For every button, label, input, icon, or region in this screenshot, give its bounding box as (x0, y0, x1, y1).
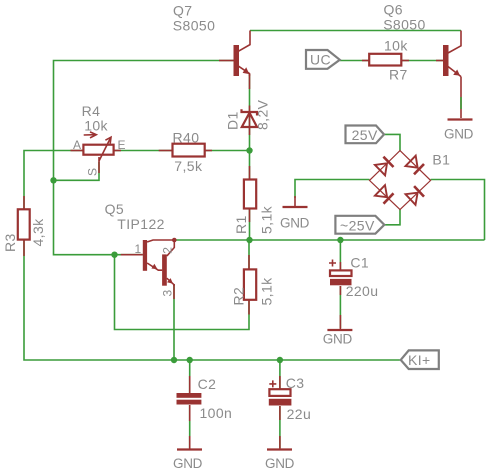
svg-text:GND: GND (323, 332, 353, 347)
diode top-left of bridge B1 (375, 163, 387, 175)
wire Q7 emitter pin stub (249, 74, 251, 89)
svg-text:7,5k: 7,5k (174, 158, 203, 174)
wire R2 bottom pin stub (248, 300, 250, 315)
wire C3 GND stem (279, 436, 281, 449)
wire R4 S wiper to left vertical (54, 162, 100, 180)
svg-text:A: A (73, 138, 81, 152)
svg-text:R7: R7 (389, 67, 408, 83)
wire C2 bottom pin stub (189, 405, 191, 421)
net flag 25V (346, 126, 385, 144)
wire Q6 emitter to GND (460, 77, 462, 119)
svg-text:R1: R1 (233, 215, 249, 234)
svg-text:Q6: Q6 (384, 2, 403, 18)
wire R4 A terminal to R3 top (24, 151, 84, 211)
junction wiper node (50, 177, 56, 183)
potentiometer R4 (83, 132, 113, 161)
resistor R40 (173, 144, 205, 157)
svg-text:GND: GND (444, 127, 474, 142)
net flag ~25V (335, 216, 384, 234)
wire C3 stem (279, 360, 281, 389)
svg-text:GND: GND (173, 456, 203, 470)
wire C2 stem (189, 360, 191, 393)
wire R3 bottom to KI+ rail (24, 240, 401, 360)
svg-text:2: 2 (160, 247, 174, 254)
wire R7 left pin stub (362, 60, 369, 62)
junction Q5 base node (111, 252, 117, 258)
ground GND below Q6 (444, 120, 474, 142)
svg-text:UC: UC (310, 52, 331, 68)
diode bottom-left of bridge B1 (375, 185, 387, 197)
wire D1 pin stubs (249, 106, 251, 136)
wire bridge left corner to GND (295, 180, 370, 199)
wire R7 to Q6 base (401, 60, 443, 62)
junction C2 on KI+ rail (187, 357, 193, 363)
svg-text:C3: C3 (286, 375, 305, 391)
ground GND below C3 (265, 450, 295, 470)
wire Q7 base pin stub (219, 60, 234, 62)
wire C1 top pin stub (339, 262, 341, 270)
svg-text:D1: D1 (225, 111, 241, 130)
wire 25V flag to bridge top (384, 134, 400, 150)
wire C1 stem (339, 240, 341, 270)
ground GND below C2 (173, 450, 203, 470)
wire Q5 emitter pin stub (173, 284, 175, 299)
svg-text:22u: 22u (287, 406, 312, 422)
wire C2 GND stem (189, 436, 191, 449)
wire Q7 emitter / D1 / R1 vertical (249, 74, 251, 240)
wire node rail y240 Q5 collector to bridge right return (174, 239, 484, 241)
wire R40 right pin stub (205, 150, 212, 152)
wire bridge GND stem (294, 196, 296, 206)
wire R3 bottom pin stub (23, 240, 25, 256)
zener diode D1 (242, 109, 258, 127)
junction D1/R40/R1 node (246, 147, 252, 153)
wire C3 top pin stub (279, 376, 281, 389)
svg-text:C2: C2 (198, 376, 217, 392)
resistor R7 (369, 54, 401, 66)
diode bottom-right of bridge B1 (406, 193, 418, 205)
svg-text:25V: 25V (352, 127, 378, 143)
svg-text:220u: 220u (346, 283, 379, 299)
wire C1 bottom pin stub (339, 286, 341, 295)
svg-text:GND: GND (265, 456, 295, 470)
transistor Q6 (443, 31, 461, 77)
wire UC to R7 (340, 60, 369, 62)
wire R40 left pin stub (159, 150, 173, 152)
svg-text:~25V: ~25V (340, 218, 375, 234)
net flag UC (306, 50, 340, 69)
resistor R1 (244, 180, 256, 209)
junction C3 on KI+ rail (277, 357, 283, 363)
wire ~25V flag to bridge bottom (384, 210, 400, 225)
diode top-right of bridge B1 (406, 156, 418, 168)
wire R1 top pin stub (249, 166, 251, 180)
capacitor C1 (329, 260, 352, 286)
svg-text:B1: B1 (432, 152, 450, 168)
svg-text:GND: GND (280, 216, 310, 231)
ground GND below C1 (323, 330, 353, 347)
svg-text:R3: R3 (2, 233, 18, 252)
wire R4 pin A stub (71, 150, 84, 152)
svg-text:S: S (86, 168, 100, 176)
transistor Q7 (234, 31, 251, 77)
svg-text:5,1k: 5,1k (259, 277, 275, 306)
ground GND bridge left (280, 207, 310, 231)
wire Q7 base from left vertical (54, 61, 234, 255)
wire R4 pin E stub (114, 150, 121, 152)
svg-text:10k: 10k (84, 118, 108, 134)
wire Q5 emitter down to rail (173, 284, 175, 360)
transistor Q5 TIP122 (143, 238, 177, 286)
svg-text:R40: R40 (173, 130, 200, 146)
svg-text:C1: C1 (350, 255, 369, 271)
svg-text:3: 3 (160, 290, 174, 297)
resistor R2 (244, 269, 256, 299)
net flag KI+ (401, 350, 439, 369)
junction R1/R2 node (246, 237, 252, 243)
wire Q6 base pin stub (436, 60, 443, 62)
wire top rail Q7 collector to Q6 collector (250, 30, 461, 32)
wire R4 pin S stub (98, 157, 100, 173)
wire R7 right pin stub (401, 60, 409, 62)
svg-text:8,2V: 8,2V (255, 99, 271, 130)
wire R2 bottom feedback to Q5 base (115, 240, 250, 330)
svg-text:KI+: KI+ (408, 352, 431, 368)
svg-text:TIP122: TIP122 (117, 216, 165, 232)
wire R3 top pin stub (23, 196, 25, 210)
resistor R3 (18, 209, 30, 239)
capacitor C3 (269, 380, 292, 405)
svg-text:1: 1 (135, 242, 142, 256)
wire C3 bottom pin stub (279, 406, 281, 420)
svg-text:5,1k: 5,1k (259, 205, 275, 234)
wire R4 E through R40 to D1 node (114, 150, 250, 152)
junction C1 node (337, 237, 343, 243)
junction Q5 emitter on KI+ rail (171, 357, 177, 363)
wire R1 bottom pin stub (249, 209, 251, 223)
svg-text:S8050: S8050 (173, 17, 215, 33)
svg-text:R2: R2 (231, 287, 247, 306)
wire C1 GND stem (339, 315, 341, 329)
svg-text:100n: 100n (200, 405, 233, 421)
svg-text:Q7: Q7 (173, 3, 192, 19)
svg-text:Q5: Q5 (105, 201, 124, 217)
svg-text:4,3k: 4,3k (30, 218, 46, 247)
svg-text:E: E (118, 138, 126, 152)
svg-text:10k: 10k (384, 38, 408, 54)
svg-text:S8050: S8050 (383, 16, 425, 32)
capacitor C2 (177, 393, 202, 405)
wire R2 top pin stub (248, 255, 250, 269)
wire C2 top pin stub (189, 376, 191, 393)
wire bridge right corner return (431, 180, 485, 241)
bridge rectifier B1 (370, 151, 431, 210)
wire Q5 base pin stub (121, 254, 143, 256)
